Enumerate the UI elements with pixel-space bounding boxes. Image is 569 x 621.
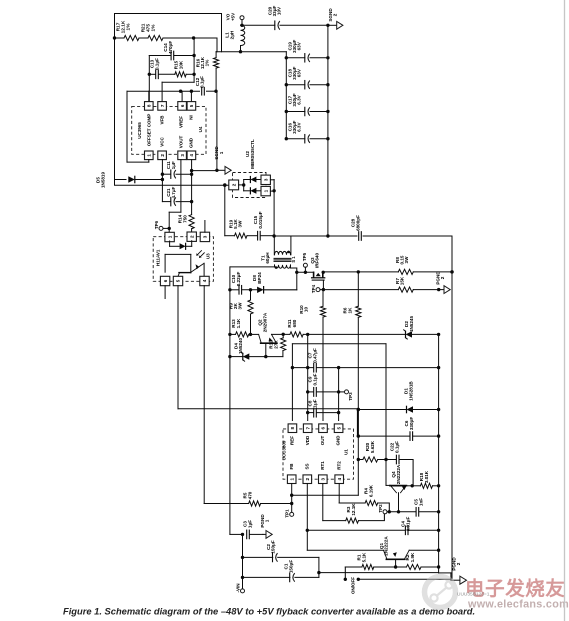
capacitor C7 [292,348,440,372]
transformer T1 secondary [230,265,297,272]
svg-text:NI: NI [189,115,194,120]
wire VOUT jog [168,160,181,232]
svg-text:6800pF: 6800pF [355,215,360,231]
svg-text:12.1K: 12.1K [351,503,356,516]
test point TP1 [285,509,294,518]
wire [223,183,226,186]
pin 2 [303,463,312,483]
pin 5 [187,91,196,110]
transistor Q1 [379,536,439,569]
wire collector [406,484,421,487]
pin 3 [319,461,328,484]
wire source [323,270,398,273]
svg-text:6.19K: 6.19K [368,484,373,497]
ground PGND2 [436,271,451,294]
svg-text:H11AV1: H11AV1 [156,249,161,266]
wire primary top rail [272,234,357,237]
svg-text:TP2: TP2 [378,504,383,513]
svg-text:15K: 15K [400,276,405,285]
svg-text:UC3965: UC3965 [137,122,142,139]
resistor R8 [395,255,454,274]
svg-text:VDD: VDD [305,435,310,445]
resistor R20 [358,440,377,462]
page edge [564,0,566,621]
ic U2 MBR0535CTL dashed body [233,139,267,197]
switch ON/OFF [350,577,451,594]
capacitor C22 [378,441,413,486]
pin 5 [334,424,343,433]
diode D4 zener [230,338,283,362]
svg-text:5: 5 [336,426,341,429]
resistor R14 [178,214,195,232]
svg-text:VCC: VCC [159,137,164,147]
pin 1 [261,186,274,195]
svg-text:3: 3 [321,477,326,480]
wire RT2 riser [339,484,365,504]
pin 7 [158,102,167,111]
pin 2 [187,232,196,241]
svg-text:6.3V: 6.3V [297,94,302,104]
svg-text:5: 5 [176,279,181,282]
wire FB riser [290,484,293,513]
svg-text:1.9K: 1.9K [410,552,415,562]
svg-text:GND: GND [188,137,193,148]
diode U2b [244,188,262,194]
svg-text:IRF640: IRF640 [315,253,320,269]
label U3 [206,253,211,259]
marking UDG [457,592,490,598]
svg-text:6: 6 [321,426,326,429]
transformer T1 primary [274,236,291,255]
label UCC3809 [281,440,286,460]
svg-text:1nF: 1nF [418,498,423,506]
svg-text:150μF: 150μF [288,560,293,573]
capacitor C6 [358,417,440,441]
resistor R16 [196,52,219,91]
svg-text:2N2222A: 2N2222A [396,464,401,484]
svg-text:1.1K: 1.1K [236,318,241,328]
svg-text:1N5245: 1N5245 [409,316,414,333]
capacitor C1 [243,560,319,582]
label NI [189,115,194,120]
svg-text:3: 3 [263,178,268,181]
svg-text:1N5240: 1N5240 [238,338,243,355]
svg-text:4: 4 [202,279,207,282]
svg-text:2: 2 [305,477,310,480]
capacitor C5 [414,498,441,516]
wire R6-FB rail [357,317,360,495]
label OFFSET COMP [146,114,151,147]
pin 4 [187,151,196,160]
diode U2a [244,177,262,191]
svg-text:6.3V: 6.3V [297,122,302,132]
capacitor C18 [285,66,330,89]
label S1 [291,256,296,263]
svg-text:1μF: 1μF [247,520,252,528]
capacitor C14 [149,41,194,60]
capacitor C11 [162,161,193,179]
svg-text:1μF: 1μF [312,399,317,407]
caption [63,607,475,617]
svg-text:1: 1 [219,151,224,154]
wire RT1 riser [323,484,346,521]
svg-text:RT1: RT1 [320,461,325,470]
resistor R6 [343,272,361,318]
wire thick segment [357,410,359,437]
watermark logo [425,577,456,608]
label VREF [179,116,184,128]
svg-text:RT2: RT2 [336,461,341,470]
diode D1 [357,381,441,413]
label H11AV1 [156,249,161,266]
svg-text:OUT: OUT [320,436,325,446]
pin 7 [303,424,312,433]
terminal VO +5V [226,12,244,27]
wire FB to comp [292,494,359,496]
ground PGND1 [260,514,272,539]
svg-text:0.1μF: 0.1μF [154,58,159,70]
wire [186,73,194,75]
resistor R12 [269,333,286,357]
svg-text:1%: 1% [126,23,132,31]
svg-text:63V: 63V [297,41,302,50]
resistor R7 [395,276,440,292]
capacitor C17 [285,93,330,116]
capacitor C20 [242,5,330,29]
wire GND rail [337,368,340,421]
svg-text:0.015μF: 0.015μF [258,211,263,228]
test point TP4 [311,284,399,293]
pin 2 [229,180,246,190]
wire [163,36,217,51]
svg-text:OFFSET COMP: OFFSET COMP [146,114,151,147]
wire -VIN rail [241,534,244,589]
svg-text:UCC3809: UCC3809 [281,440,286,460]
wire input loop [317,557,320,577]
svg-text:470pF: 470pF [168,41,173,54]
ic U4 dashed body [132,106,206,154]
svg-text:10V: 10V [277,6,282,15]
LED inside U3 [170,241,192,250]
svg-text:750: 750 [182,215,187,223]
wire top rail [115,14,222,185]
wire cap bank rails [286,25,328,236]
svg-text:1N5819: 1N5819 [100,172,105,189]
capacitor C2 [243,540,319,562]
svg-text:S 1: S 1 [291,256,296,263]
svg-text:FB: FB [289,463,294,470]
svg-text:330pF: 330pF [409,417,414,430]
wire R17 input rail [113,36,124,39]
label VCC [159,137,164,147]
svg-text:TP6: TP6 [154,220,159,229]
pin 3 [261,175,274,184]
svg-text:5.62K: 5.62K [370,440,375,453]
svg-text:5.1K: 5.1K [361,552,366,562]
wire [224,185,226,236]
svg-text:27K: 27K [273,340,278,349]
svg-text:1: 1 [289,477,294,480]
capacitor C9 [308,373,341,396]
svg-text:60μH: 60μH [265,252,270,264]
label Q3 [310,253,320,269]
svg-text:3: 3 [180,154,185,157]
label VOUT [179,136,184,149]
pin 8 [288,424,297,433]
capacitor C28 [351,215,452,240]
test point TP6 [154,220,169,230]
label VFB [159,115,164,125]
diode D8 [242,272,297,293]
label U1 [344,449,349,455]
svg-text:TP3: TP3 [348,392,353,401]
svg-text:VOUT: VOUT [179,136,184,149]
resistor R3 [346,503,385,524]
wire VFB jog [162,82,194,102]
svg-text:8: 8 [147,104,152,107]
svg-text:4: 4 [189,154,194,157]
capacitor C13 [149,58,175,79]
ground PGND2 bottom [451,557,467,585]
capacitor C8 [308,399,339,417]
svg-text:UUU35B123=1: UUU35B123=1 [457,592,490,598]
svg-text:2: 2 [189,235,194,238]
resistor R15 [174,60,187,77]
transistor Q4 [386,460,406,512]
resistor R17 [116,20,139,41]
diode D2 zener [404,316,441,339]
label VDD [305,435,310,445]
svg-text:U1: U1 [344,449,349,455]
svg-text:2: 2 [160,154,165,157]
capacitor C16 [285,120,330,143]
svg-text:2: 2 [333,13,338,16]
pin 8 [145,91,154,110]
svg-text:1N5281B: 1N5281B [408,381,413,401]
svg-text:10: 10 [304,307,309,313]
svg-text:3: 3 [203,235,208,238]
svg-text:MBR0535CTL: MBR0535CTL [250,139,255,169]
wire VCC riser [161,160,164,202]
svg-text:ON/OFF: ON/OFF [350,577,355,594]
svg-text:63V: 63V [297,68,302,77]
svg-text:6: 6 [180,104,185,107]
wire U2 common [272,180,275,237]
svg-text:7: 7 [160,104,165,107]
svg-text:0.01μF: 0.01μF [405,517,410,532]
svg-text:4.7μF: 4.7μF [171,186,176,198]
svg-text:U4: U4 [198,126,203,132]
svg-text:REF: REF [290,436,295,445]
pin 1 [165,232,174,241]
node C14 riser [192,38,195,82]
svg-text:1%: 1% [151,24,157,32]
svg-text:0.47μF: 0.47μF [312,348,317,363]
svg-text:2N2222A: 2N2222A [384,536,389,556]
label T1 [260,252,270,264]
ground SGND2 [328,8,343,30]
wire SGND1 rail [215,91,218,172]
wire R11 to D2 [303,333,405,336]
ic U1 UCC3809 dashed body [283,429,354,479]
wire input rail [228,267,231,535]
ground SGND1 [214,146,231,175]
watermark text [465,577,569,611]
wire collector rail [307,549,440,552]
wire SS riser [306,484,309,551]
svg-text:+5V: +5V [230,12,235,21]
svg-text:TP4: TP4 [311,284,316,293]
wire GND pin4 to SGND [190,160,217,173]
wire bottom long [319,572,439,574]
label UC3965 [137,122,142,139]
svg-text:680: 680 [292,319,297,327]
resistor R21 [141,23,163,40]
wire D8 up [296,272,298,290]
svg-text:U3: U3 [206,253,211,259]
diode D5 [96,172,163,189]
wire right rail [450,236,453,579]
svg-text:TP1: TP1 [285,509,290,518]
wire opto pin5 long [178,286,358,409]
wire OUT rail [322,317,324,420]
svg-text:VREF: VREF [179,116,184,128]
svg-text:470: 470 [247,491,252,499]
pin 1 [145,151,154,162]
phototransistor in U3 [165,254,204,276]
transistor Q2 [258,312,277,356]
ic U4 UC3965 outer box [127,90,218,163]
wire mid rail [438,334,440,573]
terminal -VIN [236,584,245,593]
svg-text:2: 2 [231,183,236,186]
test point TP2 [378,504,416,514]
resistor R18 [419,470,440,488]
wire REF top [291,344,388,461]
opto U3 dashed body [153,237,213,282]
svg-text:3.01K: 3.01K [424,470,429,483]
wire rail jog [439,573,451,580]
wire opto pin4 long [204,286,248,504]
svg-text:2: 2 [456,562,461,565]
resistor R1 [344,552,396,581]
resistor R19 [225,218,247,238]
pin 4 [335,461,344,484]
light arrows [196,251,204,258]
wire VDD rail [306,334,309,420]
pin 5 [173,276,182,285]
label OUT [320,436,325,446]
label GND [336,435,341,446]
wire drain [295,271,313,274]
svg-text:4: 4 [337,477,342,480]
svg-text:SS: SS [304,463,309,469]
svg-text:0.1μF: 0.1μF [200,76,205,88]
svg-text:1: 1 [263,189,268,192]
label GND [188,137,193,148]
svg-text:Figure 1. Schematic diagram of: Figure 1. Schematic diagram of the –48V … [63,607,475,617]
svg-text:2μH: 2μH [229,30,234,39]
resistor R2 [396,552,441,570]
test point TP3 [339,390,353,401]
svg-text:0.1μF: 0.1μF [312,373,317,385]
pin 6 [178,91,187,110]
capacitor C12 [195,76,205,95]
capacitor C10 [230,272,242,295]
resistor R13 [230,318,259,337]
svg-text:2: 2 [440,276,445,279]
resistor R10 [299,290,326,318]
svg-text:1: 1 [265,519,270,522]
transistor Q3 mosfet [312,271,325,290]
svg-text:3W: 3W [238,302,243,310]
svg-text:150μF: 150μF [271,540,276,553]
label U4 [198,126,203,132]
capacitor C4 [307,517,440,535]
capacitor C21 [162,186,193,205]
core T1 [274,258,291,261]
test point TP5 [302,252,307,272]
pin 6 [160,276,169,298]
svg-text:1K: 1K [347,307,352,314]
wire long to U2 pin2 [115,184,229,187]
svg-text:GND: GND [336,435,341,446]
inductor L1 [225,25,245,51]
pin 3 [178,151,187,160]
resistor R11 [287,319,303,337]
capacitor C15 [247,211,274,240]
svg-text:10K: 10K [178,60,183,69]
pin 2 [158,151,167,160]
wire [139,37,148,39]
wire L1 top feed [216,50,286,53]
svg-text:1: 1 [147,154,152,157]
svg-text:0.22μF: 0.22μF [236,272,241,287]
svg-text:BP24: BP24 [257,272,262,284]
svg-text:1%: 1% [204,60,209,67]
svg-text:1: 1 [167,235,172,238]
svg-text:8: 8 [290,426,295,429]
svg-text:0.1μF: 0.1μF [394,441,399,453]
resistor R9 [229,290,253,336]
pin 1 [287,463,296,484]
resistor R4 [364,484,390,512]
pin 3 [200,221,209,242]
svg-text:3W: 3W [238,220,243,228]
capacitor C19 [285,39,330,62]
svg-text:5: 5 [189,104,194,107]
svg-text:VFB: VFB [159,115,164,125]
svg-text:-VIN: -VIN [236,584,241,593]
svg-text:2N2907A: 2N2907A [262,312,267,332]
pin 4 [200,276,209,285]
wire [272,333,290,335]
svg-text:www.elecfans.com: www.elecfans.com [467,599,569,611]
resistor R5 [243,491,292,506]
svg-text:1μF: 1μF [171,161,176,169]
label REF [290,436,295,445]
wire [148,56,151,102]
pin 6 [319,424,328,433]
wire C3 corner [230,533,244,536]
svg-text:3W: 3W [404,256,409,264]
capacitor C3 [243,520,263,539]
wire GND riser [191,171,193,215]
svg-text:6: 6 [163,279,168,282]
svg-text:TP5: TP5 [302,252,307,261]
svg-text:7: 7 [305,426,310,429]
